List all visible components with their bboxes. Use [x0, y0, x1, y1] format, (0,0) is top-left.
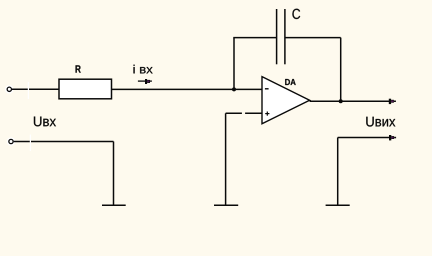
wire resistor to op-amp inverting input [112, 88, 262, 90]
white tick artifact upper [27, 82, 29, 99]
lower input wire vertical [113, 142, 115, 206]
label C [292, 9, 300, 19]
output measure arrowhead [389, 135, 396, 140]
label U in [34, 117, 56, 127]
input terminal (upper circle) [5, 85, 14, 94]
label i vx [133, 65, 152, 74]
output arrowhead [389, 99, 396, 104]
resistor R [59, 79, 112, 99]
minus sign [265, 88, 269, 90]
input lower terminal circle [7, 137, 16, 146]
output measure horizontal wire [338, 137, 391, 139]
current arrow [138, 79, 152, 84]
node junction at output [339, 99, 343, 103]
white tick artifact lower [29, 135, 31, 152]
ground bar left [102, 204, 126, 206]
output measure vertical wire [337, 138, 339, 206]
lower input wire horizontal [14, 141, 114, 143]
feedback wire left vertical [233, 38, 235, 90]
label U out [366, 117, 395, 127]
feedback wire top-right horizontal [285, 37, 341, 39]
ground bar middle [214, 204, 238, 206]
ground bar right [326, 204, 350, 206]
non-inverting input wire (with gap) [226, 112, 242, 114]
capacitor C [277, 9, 285, 64]
wire down from non-inverting input [225, 113, 227, 205]
label R [76, 65, 81, 72]
label DA [285, 79, 295, 85]
plus sign [265, 112, 269, 116]
feedback wire right vertical [340, 38, 342, 102]
feedback wire top-left horizontal [233, 37, 276, 39]
output wire [310, 100, 391, 102]
node junction at inverting input [232, 87, 236, 91]
op-amp DA [262, 77, 310, 124]
wire input to resistor [12, 88, 59, 90]
